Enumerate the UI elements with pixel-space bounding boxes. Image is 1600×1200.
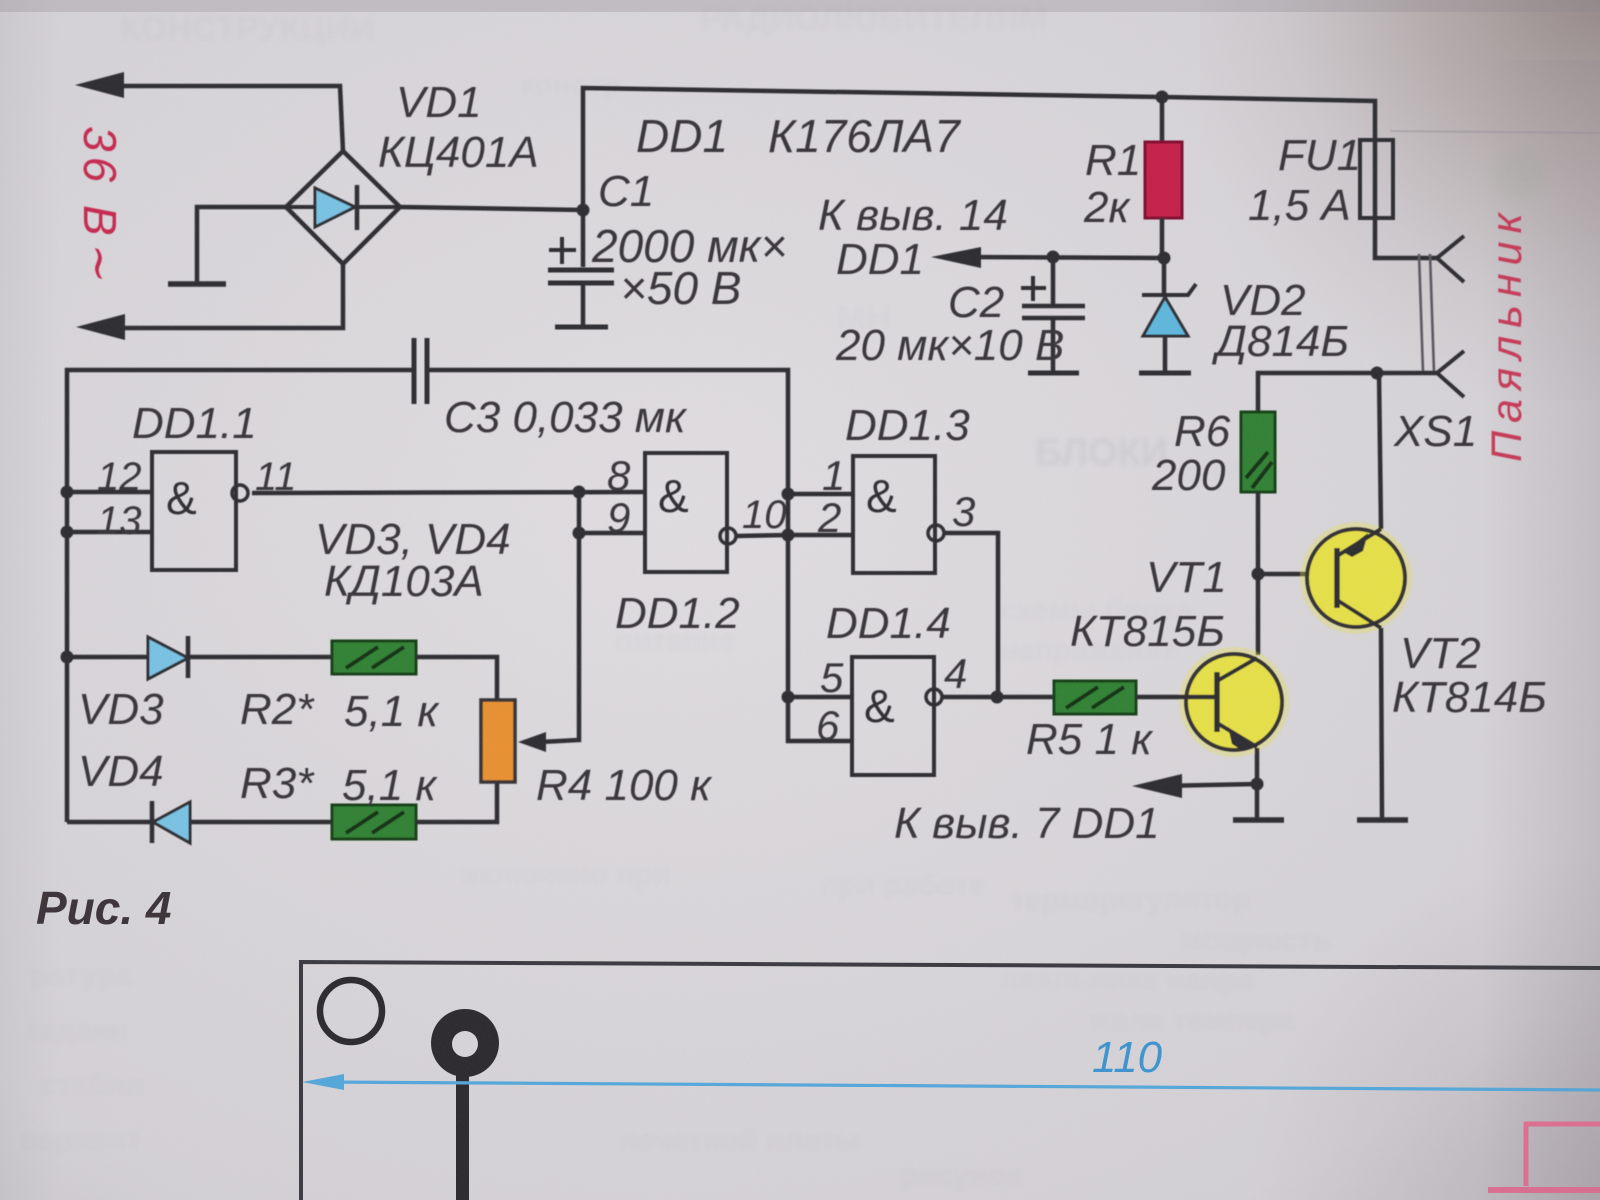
VD1 label [378, 78, 539, 177]
wire pin11 to pin8 [252, 492, 645, 493]
pin 6 label [816, 702, 840, 749]
pin 12 wire [67, 490, 152, 495]
wire AC input bottom with arrow [76, 264, 343, 340]
resistor R3 [332, 782, 497, 839]
node R4 bus top [573, 486, 586, 499]
pin 1 label [822, 452, 845, 499]
R5 label [1026, 715, 1154, 764]
connector XS1 upper contact [1437, 236, 1464, 282]
wire rail to pin14 with arrow [931, 247, 1164, 268]
node VT1 emitter [1251, 778, 1264, 791]
zener VD2 [1139, 258, 1196, 373]
pin 10 label [742, 493, 787, 537]
diode VD4 [67, 801, 332, 843]
node pin9 [573, 527, 586, 540]
R2 label [240, 685, 440, 736]
diode VD3 [67, 636, 332, 679]
FU1 labels [1248, 131, 1361, 230]
node C2 top [1047, 251, 1060, 264]
pin 4 label [944, 650, 967, 697]
gate DD1.2 [645, 453, 736, 572]
pin 11 label [255, 455, 297, 499]
wire bus to R4 wiper [518, 492, 579, 752]
node pin4 [991, 691, 1004, 704]
ground VT2 [1357, 817, 1408, 823]
DD1.2 label [615, 589, 740, 638]
wire XS1 lower to rail [1258, 373, 1437, 412]
board outline [301, 962, 1600, 1200]
R3 label [240, 759, 438, 810]
pin 9 label [607, 494, 630, 541]
diodes common label [315, 515, 511, 606]
pin 3 label [952, 488, 975, 535]
pin 13 label [97, 499, 142, 543]
XS1 label [1393, 407, 1477, 456]
VD2 labels [1211, 276, 1349, 366]
K vyv 7 DD1 label [894, 799, 1160, 848]
mounting hole [320, 980, 382, 1042]
R6 labels [1151, 407, 1231, 500]
node XS1 lower [1371, 367, 1384, 380]
VD3 label [78, 685, 164, 734]
wire bridge output to node [400, 207, 583, 210]
potentiometer R4 [481, 700, 515, 782]
node bus pin1 [782, 488, 795, 501]
fuse FU1 [1360, 140, 1437, 258]
K vyv 14 DD1 label [818, 191, 1008, 284]
R4 label [536, 761, 713, 810]
wire pin2 [788, 533, 853, 538]
C1 labels [591, 167, 787, 314]
capacitor C2 [1021, 257, 1085, 373]
transistor VT2 [1300, 373, 1412, 818]
wire AC input top with arrow [75, 72, 343, 151]
node bus pin2 [782, 529, 795, 542]
pin 2 label [817, 494, 841, 541]
resistor R5 [997, 681, 1188, 714]
VT1 labels [1070, 553, 1227, 656]
gate DD1.1 [152, 452, 248, 570]
Pajalnik red label [1483, 205, 1531, 462]
wire pin4 to node [942, 695, 997, 700]
capacitor C1 [548, 210, 614, 327]
wire to VT2 base [1258, 572, 1337, 577]
node R1 bottom [1158, 252, 1171, 265]
DD1 chip label [636, 110, 961, 162]
pin 12 label [97, 455, 142, 499]
node VT2 base junction [1252, 568, 1265, 581]
pad with hole [431, 1009, 499, 1200]
DD1.1 label [132, 399, 257, 448]
wire pin10 to bus [736, 535, 788, 536]
wire to pin7 with arrow [1132, 774, 1257, 798]
faint crease top right [1390, 131, 1600, 133]
node pin13 [61, 526, 74, 539]
node R1 top [1156, 91, 1169, 104]
transistor VT1 [1179, 647, 1289, 818]
DD1.3 label [845, 401, 970, 450]
red pencil mark bottom right [1488, 1122, 1600, 1190]
C2 labels [835, 278, 1064, 370]
C3 label [444, 393, 688, 442]
pin 8 label [607, 452, 631, 499]
resistor R1 [1145, 97, 1182, 258]
resistor R2 [332, 641, 497, 700]
gate DD1.4 [852, 657, 942, 775]
node pin5 [782, 691, 795, 704]
dimension line 110 [302, 1033, 1600, 1090]
node: ~36V label [74, 126, 126, 284]
wire bridge to ground stub [197, 207, 286, 282]
wire C3 left to bus [67, 370, 414, 822]
wire pin1 [788, 492, 853, 497]
capacitor C3 [414, 338, 427, 404]
wire pin5 [788, 695, 852, 700]
connector XS1 lower contact [1437, 351, 1464, 397]
figure caption [36, 882, 172, 934]
ground VT1 [1233, 817, 1284, 823]
R1 labels [1083, 136, 1141, 232]
VD4 label [78, 747, 164, 796]
wire C3 right to bus [427, 370, 852, 741]
node pin12 [61, 486, 74, 499]
node C1 top [577, 204, 590, 217]
node VD3 [61, 651, 74, 664]
DD1.4 label [826, 599, 951, 648]
wire pin9 [579, 531, 645, 536]
gate DD1.3 [853, 456, 944, 573]
VT2 labels [1392, 629, 1547, 722]
bridge rectifier VD1 [286, 151, 400, 264]
pin 5 label [820, 654, 844, 701]
wire pin3 riser [944, 533, 998, 697]
resistor R6 [1241, 412, 1275, 655]
wire riser and top rail [583, 88, 1375, 210]
pin 13 wire [67, 530, 152, 535]
ground [168, 281, 226, 287]
cord double line [1419, 254, 1434, 372]
